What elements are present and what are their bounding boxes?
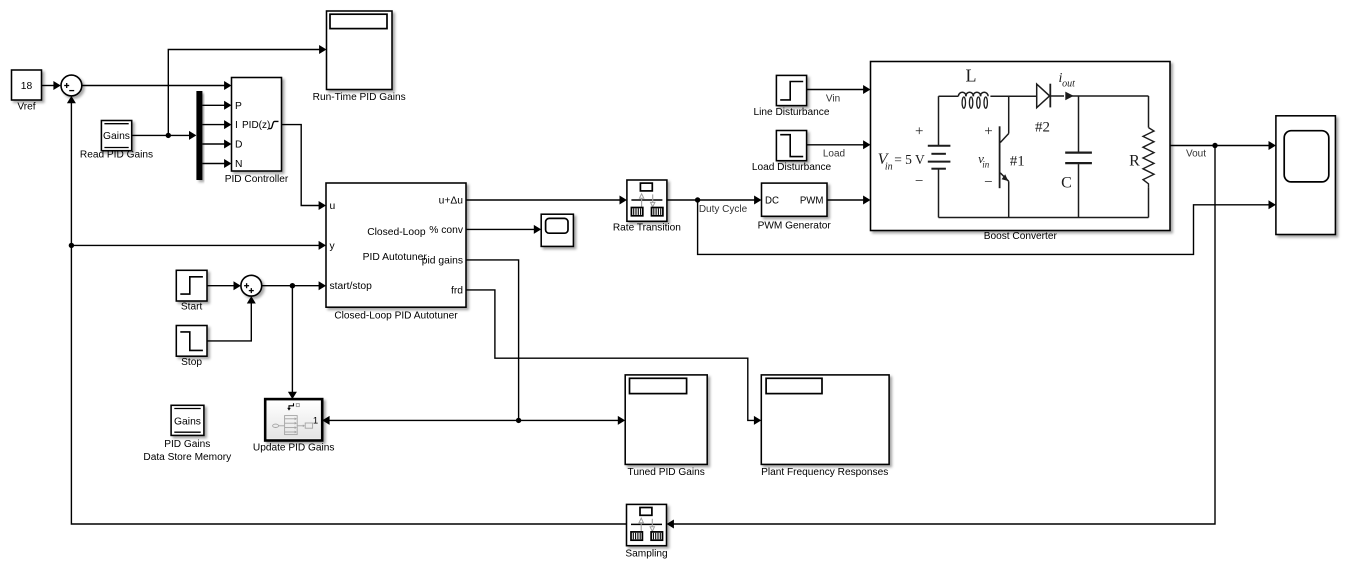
svg-text:Data Store Memory: Data Store Memory — [143, 452, 232, 463]
svg-text:Duty Cycle: Duty Cycle — [699, 204, 748, 215]
svg-text:C: C — [1061, 175, 1072, 192]
svg-text:Gains: Gains — [174, 416, 201, 427]
svg-text:in: in — [885, 162, 893, 173]
svg-text:Tuned PID Gains: Tuned PID Gains — [628, 467, 705, 478]
svg-text:PWM: PWM — [800, 195, 824, 206]
svg-text:+: + — [915, 123, 923, 139]
svg-text:N: N — [235, 159, 242, 170]
svg-text:DC: DC — [765, 195, 779, 206]
svg-text:PWM Generator: PWM Generator — [758, 220, 832, 231]
svg-text:PID Controller: PID Controller — [225, 174, 289, 185]
svg-text:Vref: Vref — [17, 102, 35, 113]
svg-text:−: − — [984, 174, 992, 190]
svg-text:Sampling: Sampling — [625, 548, 667, 559]
svg-text:PID(z): PID(z) — [242, 120, 270, 131]
svg-text:Vout: Vout — [1186, 149, 1206, 160]
svg-text:Gains: Gains — [103, 131, 130, 142]
svg-text:Run-Time PID Gains: Run-Time PID Gains — [313, 92, 406, 103]
svg-text:% conv: % conv — [429, 225, 464, 236]
svg-text:start/stop: start/stop — [330, 281, 373, 292]
svg-text:−: − — [915, 173, 923, 189]
svg-text:1: 1 — [313, 416, 318, 427]
svg-text:Plant Frequency Responses: Plant Frequency Responses — [761, 467, 888, 478]
svg-text:= 5 V: = 5 V — [894, 152, 925, 167]
svg-text:18: 18 — [21, 81, 33, 92]
svg-text:u+Δu: u+Δu — [439, 195, 464, 206]
svg-text:pid gains: pid gains — [422, 255, 463, 266]
svg-text:y: y — [330, 241, 336, 252]
svg-text:+: + — [984, 123, 992, 139]
svg-text:out: out — [1062, 79, 1075, 90]
svg-text:PID Autotuner: PID Autotuner — [363, 252, 428, 263]
svg-text:#1: #1 — [1010, 154, 1025, 170]
svg-text:Line Disturbance: Line Disturbance — [754, 107, 830, 118]
svg-text:u: u — [330, 201, 336, 212]
svg-text:Start: Start — [181, 302, 203, 313]
svg-text:#2: #2 — [1035, 120, 1050, 136]
svg-text:Closed-Loop: Closed-Loop — [367, 227, 426, 238]
svg-text:D: D — [235, 140, 242, 151]
svg-text:Closed-Loop PID Autotuner: Closed-Loop PID Autotuner — [334, 311, 458, 322]
svg-text:Boost Converter: Boost Converter — [984, 231, 1058, 242]
svg-text:Stop: Stop — [181, 357, 202, 368]
svg-text:Load: Load — [823, 148, 845, 159]
svg-text:Rate Transition: Rate Transition — [613, 222, 681, 233]
svg-text:in: in — [982, 160, 990, 170]
svg-text:R: R — [1129, 153, 1140, 170]
svg-text:Vin: Vin — [826, 93, 840, 104]
svg-text:I: I — [235, 120, 238, 131]
svg-text:Load Disturbance: Load Disturbance — [752, 162, 832, 173]
svg-text:Update PID Gains: Update PID Gains — [253, 443, 335, 454]
svg-text:Read PID Gains: Read PID Gains — [80, 150, 153, 161]
svg-text:frd: frd — [451, 285, 463, 296]
svg-text:P: P — [235, 101, 242, 112]
svg-text:L: L — [966, 66, 977, 86]
svg-text:PID Gains: PID Gains — [164, 439, 210, 450]
